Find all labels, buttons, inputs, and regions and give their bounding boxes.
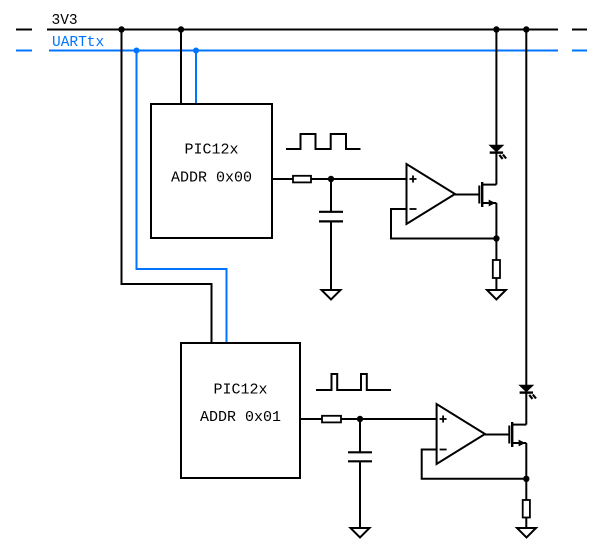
3V3 bus right continuation dash: [572, 29, 587, 31]
node N2 junction: [493, 235, 499, 241]
wire Q2 drain to LED D2: [525, 393, 527, 425]
resistor R4: [523, 500, 530, 518]
wire Q1 drain to LED D1: [495, 153, 497, 185]
node N3 junction: [357, 416, 363, 422]
IC U2 PIC12x ADDR 0x01: [181, 343, 300, 478]
wire capacitor C1 to ground: [330, 222, 332, 290]
wire resistor R4 to ground: [525, 518, 527, 529]
junction on UARTtx bus at U2 drop: [134, 48, 140, 54]
wire 3V3 drop to LED D2: [525, 30, 527, 387]
UARTtx bus left continuation dash: [16, 50, 32, 52]
node N1 junction: [328, 176, 334, 182]
node N4 junction: [523, 476, 529, 482]
wire U2 output to op-amp U4 + input: [300, 418, 437, 420]
junction on 3V3 bus at LED D2 branch: [523, 26, 529, 32]
IC U1 PIC12x ADDR 0x00: [151, 104, 272, 238]
PWM waveform 1: [286, 134, 361, 149]
wire capacitor C2 to ground: [359, 462, 361, 528]
junction on 3V3 bus at LED D1 branch: [493, 26, 499, 32]
wire 3V3 drop to U1: [180, 30, 182, 105]
resistor R1: [293, 176, 311, 183]
wire op-amp U4 output to Q2 gate: [485, 434, 509, 436]
wire node N3 to capacitor C2: [359, 419, 361, 452]
ground symbol under C2: [351, 528, 370, 538]
junction on 3V3 bus at U1 drop: [178, 26, 184, 32]
svg-text:PIC12x: PIC12x: [213, 382, 267, 399]
3V3 bus left continuation dash: [16, 29, 32, 31]
wire UARTtx drop to U1: [195, 51, 197, 105]
ground symbol under R4: [517, 528, 536, 538]
wire U1 output to op-amp U3 + input: [272, 178, 407, 180]
transistor Q1 (n-MOSFET): [479, 182, 496, 207]
ground symbol under C1: [322, 290, 341, 300]
wire node N1 to capacitor C1: [330, 179, 332, 211]
transistor Q2 (n-MOSFET): [509, 422, 526, 447]
wire 3V3 drop to LED D1: [495, 30, 497, 147]
op-amp U4: [437, 404, 485, 464]
wire op-amp U3 output to Q1 gate: [455, 194, 479, 196]
wire op-amp U4 feedback (output node to - input): [422, 450, 527, 479]
resistor R2: [493, 260, 500, 278]
junction on UARTtx bus at U1 drop: [193, 48, 199, 54]
junction on 3V3 bus at U2 drop: [118, 26, 124, 32]
wire Q2 source to node N4: [525, 443, 527, 479]
wire UARTtx drop to U2 (L-shape): [137, 51, 227, 344]
wire node N4 to resistor R4: [525, 479, 527, 500]
wire op-amp U3 feedback (output node to - input): [391, 209, 496, 239]
svg-text:UARTtx: UARTtx: [52, 35, 105, 51]
capacitor C2: [348, 452, 372, 461]
wire 3V3 drop to U2 (L-shape): [122, 30, 212, 344]
op-amp U3: [407, 164, 456, 224]
wire resistor R2 to ground: [495, 278, 497, 290]
PWM waveform 2: [316, 374, 391, 390]
LED D2: [520, 385, 536, 399]
ground symbol under R2: [487, 290, 506, 300]
capacitor C1: [319, 212, 343, 222]
svg-text:PIC12x: PIC12x: [184, 142, 238, 159]
LED D1: [490, 145, 506, 159]
wire Q1 source to node N2: [495, 203, 497, 239]
wire node N2 to resistor R2: [495, 239, 497, 261]
svg-text:3V3: 3V3: [52, 13, 78, 29]
svg-text:ADDR 0x01: ADDR 0x01: [200, 409, 281, 426]
resistor R3: [322, 416, 341, 423]
wire 3V3 bus: [47, 29, 558, 31]
UARTtx bus right continuation dash: [572, 50, 587, 52]
svg-text:ADDR 0x00: ADDR 0x00: [171, 170, 252, 187]
wire UARTtx bus: [49, 50, 558, 52]
